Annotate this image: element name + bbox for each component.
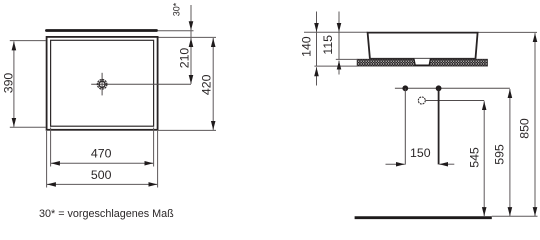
dimension line 595 (vertical): [509, 89, 511, 216]
drain cut-out in countertop (white notch): [414, 59, 431, 65]
svg-text:390: 390: [1, 73, 15, 94]
dimension line 30* (vertical, arrow down to wall line): [190, 5, 192, 30]
dimension line 390 (vertical, left): [13, 41, 15, 126]
fixing point right (filled dot): [436, 85, 442, 91]
dimension line connector between 30* and 210 arrows: [190, 30, 192, 38]
svg-text:545: 545: [467, 147, 481, 168]
extension line bottom outer-right for 500 dimension: [157, 131, 159, 188]
dimension 150 right tail (arrow pointing left): [439, 163, 454, 165]
countertop cross-section (hatched band): [357, 59, 487, 66]
dimension 115 lower tail (arrow up to countertop top): [338, 61, 340, 75]
fixing holes reference line (horizontal with dots): [395, 87, 510, 89]
basin inner rim (top view rectangle 470x390): [51, 40, 154, 126]
svg-text:30*: 30*: [172, 2, 182, 16]
svg-text:500: 500: [91, 168, 112, 182]
floor extension line (thin, under dimension arrows): [492, 215, 538, 217]
fixing point left (filled dot): [402, 85, 408, 91]
drain crosshair vertical (top view): [101, 73, 103, 96]
extension line from wall line to 30* arrow: [158, 30, 194, 32]
extension line left of basin top edge (for 140/115 dimensions): [304, 31, 368, 33]
dimension 140 line continuation down to countertop bottom level: [316, 32, 318, 66]
wall line (thick bar above basin, top view): [46, 29, 156, 32]
drain crosshair horizontal / extension to 210 dimension: [91, 83, 191, 85]
dimension 150 left tail (arrow pointing right): [386, 163, 405, 165]
dimension 140 lower tail (arrow up to countertop bottom): [316, 67, 318, 85]
extension line top-left for 390 dimension: [10, 40, 46, 42]
extension line bottom outer-left for 500 dimension: [46, 131, 48, 188]
extension line from basin top edge to 210/420 dimensions: [159, 36, 217, 38]
svg-text:150: 150: [410, 146, 431, 160]
basin bottom edge (side elevation): [369, 57, 476, 59]
dimension 140 upper tail (arrow down to basin top level): [316, 12, 318, 32]
drain cut-out outline (left, bottom, right edges): [414, 59, 431, 65]
svg-text:595: 595: [492, 144, 506, 165]
extension line from basin top edge to 850 dimension: [478, 31, 537, 33]
basin body (side elevation outline): [368, 33, 478, 59]
dimension line 500 (horizontal): [47, 183, 157, 185]
svg-text:420: 420: [199, 74, 213, 95]
dimension line 850 (vertical): [534, 33, 536, 216]
svg-text:470: 470: [91, 146, 112, 160]
svg-text:210: 210: [178, 48, 192, 69]
reference line from drain circle to 545 dimension: [425, 100, 484, 102]
dimension line 545 (vertical): [483, 101, 485, 216]
dimension 115 line continuation down to countertop top level: [338, 32, 340, 60]
extension line down from left fixing point (150 dimension): [404, 88, 406, 164]
extension line bottom-left for 390 dimension: [10, 126, 46, 128]
drain outer circle (top view): [97, 80, 107, 90]
dimension line 210 (vertical, from basin top edge to drain center): [190, 38, 192, 84]
basin outer edge (top view rectangle 500x420): [47, 37, 158, 130]
extension line left at countertop top (115 dimension): [336, 58, 358, 60]
dimension line 420 (vertical, right of top view): [212, 38, 214, 130]
svg-text:850: 850: [518, 118, 532, 139]
extension line from basin bottom edge to 420 dimension: [159, 129, 217, 131]
dimension 115 upper tail (arrow down to basin top level): [338, 12, 340, 32]
svg-text:30* = vorgeschlagenes Maß: 30* = vorgeschlagenes Maß: [39, 208, 174, 220]
extension line bottom inner-right for 470 dimension: [153, 128, 155, 167]
drain inner circle (top view): [99, 81, 105, 87]
extension line down from right fixing point (150 dimension, thick): [438, 88, 440, 164]
svg-text:115: 115: [321, 35, 335, 55]
extension line bottom inner-left for 470 dimension: [50, 128, 52, 167]
extension line left at countertop bottom (140 dimension): [314, 65, 357, 67]
dimension line 470 (horizontal): [51, 162, 153, 164]
svg-text:140: 140: [299, 36, 313, 57]
drain position circle (side elevation): [418, 97, 425, 104]
floor line (thick): [355, 216, 492, 219]
